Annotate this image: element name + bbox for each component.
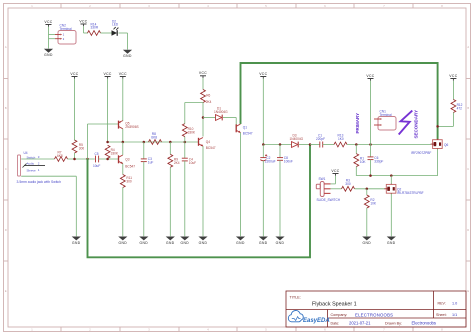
wire Q1 emitter to GND — [240, 133, 242, 237]
ground C8 — [275, 237, 284, 245]
svg-text:3: 3 — [148, 4, 150, 8]
svg-text:1/1: 1/1 — [452, 313, 457, 317]
resistor R12 472 — [438, 81, 463, 127]
power symbol VCC (R6) — [199, 71, 207, 78]
ground under D2 — [123, 50, 132, 58]
resistor R1 10K — [354, 145, 367, 176]
wire R11 to GND — [122, 188, 124, 237]
svg-text:B: B — [467, 106, 469, 110]
svg-text:Sheet:: Sheet: — [436, 313, 447, 317]
svg-text:6K8: 6K8 — [151, 135, 157, 139]
node C6 top — [369, 143, 372, 146]
switch SW1 SLIDE_SWITCH — [316, 177, 340, 202]
node R4 bottom junction — [106, 158, 109, 161]
node mid rail C4/R10 — [184, 141, 187, 144]
svg-text:U4: U4 — [24, 151, 28, 155]
svg-text:330K: 330K — [111, 151, 119, 155]
svg-text:8: 8 — [441, 4, 443, 8]
svg-text:D: D — [5, 228, 7, 232]
mosfet Q2 IRLR7843TRLPBF — [384, 183, 423, 195]
svg-text:3: 3 — [148, 327, 150, 331]
ground C2 — [259, 237, 268, 245]
wire thick primary return loop — [88, 145, 311, 258]
svg-text:330R: 330R — [91, 26, 99, 30]
node C2 — [262, 143, 265, 146]
resistor R2 10K — [364, 189, 377, 237]
ground R2 — [362, 237, 371, 245]
wire VCC to Q5 emitter — [122, 79, 124, 121]
svg-text:5: 5 — [265, 4, 267, 8]
svg-text:10uF: 10uF — [93, 164, 100, 168]
wire Q2 source to GND — [390, 194, 392, 237]
diode D3 1N4004G — [290, 134, 311, 148]
svg-text:7: 7 — [383, 327, 385, 331]
node R5/R7 junction — [73, 158, 76, 161]
svg-text:2N3906S: 2N3906S — [125, 125, 138, 129]
svg-text:3: 3 — [38, 155, 40, 159]
svg-text:6K8: 6K8 — [57, 154, 63, 158]
ground under CN2 — [44, 49, 53, 57]
wire D1 to Q1 base — [223, 118, 236, 129]
title block outline — [286, 291, 466, 327]
wire Q6 source down to rail — [437, 149, 439, 176]
ground R9 — [166, 237, 175, 245]
svg-text:E: E — [5, 289, 7, 293]
wire thick Q1 collector loop to Q6 drain — [241, 63, 438, 140]
svg-text:Sleeve: Sleeve — [27, 169, 37, 173]
wire VCC to SW1 — [331, 176, 336, 184]
power symbol VCC (R4 column) — [103, 72, 111, 79]
wire node to D1 — [203, 117, 216, 119]
wire jack switch pin to R7 — [21, 158, 54, 160]
wire R1/C6 bottom rail to Q6 source — [356, 175, 437, 177]
resistor R14 330R — [88, 22, 101, 35]
svg-text:220pF: 220pF — [316, 137, 325, 141]
ground C3 — [139, 237, 148, 245]
wire Q3 collector up — [122, 142, 124, 155]
resistor R5 300 — [72, 140, 84, 153]
svg-text:1: 1 — [38, 168, 40, 172]
resistor R7 6K8 — [55, 151, 68, 162]
power symbol VCC (C2 node) — [259, 72, 267, 79]
node Q2 drain — [390, 174, 393, 177]
svg-text:1: 1 — [31, 327, 33, 331]
wire VCC to R5 — [74, 79, 76, 141]
capacitor C5 10uF — [93, 152, 100, 168]
svg-text:1: 1 — [31, 4, 33, 8]
ground jack sleeve — [72, 237, 81, 245]
EasyEDA logo — [288, 310, 303, 321]
wire R13 to Q6 gate — [347, 144, 431, 146]
wire riser to Q5 base — [88, 124, 119, 159]
power symbol VCC (R14) — [79, 19, 87, 26]
ground C4 — [180, 237, 189, 245]
svg-text:2: 2 — [38, 161, 40, 165]
svg-text:1uF: 1uF — [148, 161, 154, 165]
svg-text:1K0: 1K0 — [338, 137, 344, 141]
resistor R3 300 — [342, 178, 355, 191]
svg-text:1N4004G: 1N4004G — [290, 137, 304, 141]
transistor Q3 BC547 — [119, 155, 136, 169]
svg-text:2021-07-21: 2021-07-21 — [349, 321, 371, 326]
svg-text:ELECTRONOOBS: ELECTRONOOBS — [355, 312, 393, 317]
capacitor C8 100nF — [277, 145, 293, 237]
svg-text:1N4004G: 1N4004G — [214, 110, 228, 114]
node C6 bottom — [369, 174, 372, 177]
svg-text:300: 300 — [345, 182, 351, 186]
svg-text:Q3: Q3 — [125, 158, 129, 162]
node R12 to drain loop — [436, 125, 439, 128]
power symbol VCC (CN1) — [366, 74, 374, 81]
wire Q2 drain up — [390, 176, 392, 184]
svg-text:5: 5 — [265, 327, 267, 331]
node mid rail Q5/Q3 collectors — [122, 141, 125, 144]
svg-text:LED: LED — [112, 23, 119, 27]
resistor R4 330K — [105, 145, 119, 158]
ground Q1 — [236, 237, 245, 245]
svg-text:8: 8 — [441, 327, 443, 331]
svg-text:4: 4 — [207, 4, 209, 8]
svg-text:BC547: BC547 — [125, 165, 135, 169]
svg-text:IRLR7843TRLPBF: IRLR7843TRLPBF — [397, 191, 424, 195]
svg-text:300: 300 — [79, 146, 85, 150]
transistor Q1 BC547 — [236, 124, 253, 136]
node R1 top — [355, 143, 358, 146]
node mid rail C3 — [143, 141, 146, 144]
wire SW1 to R3 — [331, 188, 342, 190]
transistor Q4 BC547 — [199, 138, 216, 150]
svg-text:330K: 330K — [188, 131, 196, 135]
resistor R13 1K0 — [334, 134, 347, 147]
mid rail wire — [108, 141, 199, 143]
svg-text:2: 2 — [89, 327, 91, 331]
svg-text:Q4: Q4 — [206, 140, 210, 144]
wire VCC to R14 — [84, 26, 89, 33]
svg-text:SECONDARY: SECONDARY — [414, 110, 419, 139]
svg-text:2200uF: 2200uF — [265, 160, 276, 164]
node thick loop top — [309, 143, 312, 146]
flyback lightning symbol — [399, 111, 413, 135]
svg-text:REV:: REV: — [438, 302, 446, 306]
capacitor C4 10uF — [182, 142, 196, 236]
svg-text:Q1: Q1 — [243, 126, 247, 130]
svg-text:10K: 10K — [370, 201, 377, 205]
svg-text:330pF: 330pF — [374, 160, 383, 164]
resistor R6 2K4 — [201, 78, 212, 137]
svg-text:100nF: 100nF — [284, 160, 293, 164]
svg-text:2: 2 — [89, 4, 91, 8]
svg-text:BC547: BC547 — [243, 132, 253, 136]
svg-text:B: B — [5, 106, 7, 110]
svg-text:300: 300 — [126, 180, 132, 184]
svg-text:Drawn By:: Drawn By: — [385, 321, 402, 325]
mosfet Q6 IRF2907ZPBF — [411, 139, 448, 155]
node mid rail R4 — [106, 141, 109, 144]
svg-text:4: 4 — [207, 327, 209, 331]
wire C5 to Q3 base — [99, 158, 119, 160]
svg-text:A: A — [467, 45, 469, 49]
capacitor C1 220pF — [310, 134, 334, 148]
svg-text:3.5mm audio jack with Switch: 3.5mm audio jack with Switch — [17, 180, 62, 184]
svg-text:E: E — [467, 289, 469, 293]
svg-text:7: 7 — [383, 4, 385, 8]
wire jack sleeve to GND — [21, 176, 76, 236]
LED D2 — [112, 19, 119, 36]
power symbol VCC (R12) — [449, 74, 457, 81]
wire Q3 emitter to R11 — [122, 164, 124, 175]
wire D2 to GND — [119, 33, 128, 50]
capacitor C3 1uF — [141, 142, 154, 236]
svg-text:10K: 10K — [360, 160, 367, 164]
wire Q4 emitter to GND — [202, 146, 204, 236]
svg-text:D: D — [467, 228, 469, 232]
wire R3 to Q2 gate — [355, 188, 385, 190]
svg-text:C5: C5 — [95, 152, 99, 156]
node R2 top — [366, 188, 369, 191]
svg-text:IRF2907ZPBF: IRF2907ZPBF — [411, 151, 431, 155]
svg-text:PRIMARY: PRIMARY — [355, 113, 360, 134]
ground Q2 — [387, 237, 396, 245]
svg-text:TITLE:: TITLE: — [290, 296, 301, 300]
svg-text:Electronoobs: Electronoobs — [412, 321, 436, 326]
transistor Q5 2N3906S — [118, 121, 138, 130]
svg-text:6: 6 — [324, 327, 326, 331]
svg-text:Q6: Q6 — [444, 143, 448, 147]
audio jack U4 — [17, 151, 62, 184]
wire R7 to C5 (signal node) — [68, 158, 95, 160]
svg-text:Terminal: Terminal — [380, 113, 392, 117]
resistor R8 6K8 — [149, 132, 162, 145]
connector CN1 — [374, 110, 396, 130]
node C8 — [279, 143, 282, 146]
node mid rail R9 — [169, 141, 172, 144]
wire R14 to D2 — [101, 32, 112, 34]
wire VCC down to mid rail — [107, 79, 109, 142]
resistor R9 2K4 — [168, 142, 180, 236]
ground Q4 — [198, 237, 207, 245]
wire D3 rail — [263, 144, 291, 146]
svg-text:EasyEDA: EasyEDA — [303, 318, 330, 324]
svg-text:2K4: 2K4 — [174, 161, 180, 165]
svg-text:A: A — [5, 45, 7, 49]
svg-text:Terminal: Terminal — [60, 27, 72, 31]
svg-text:Flyback Speaker 1: Flyback Speaker 1 — [312, 301, 357, 307]
power symbol VCC (Q5 emitter) — [119, 72, 127, 79]
diode D1 1N4004G — [214, 107, 228, 121]
svg-text:SW1: SW1 — [319, 177, 326, 181]
power symbol VCC (CN2 input) — [44, 20, 52, 27]
node D1 branch — [202, 116, 205, 119]
power symbol VCC (SW1) — [331, 169, 339, 176]
resistor R11 300 — [120, 175, 132, 188]
wire VCC down to D3 rail — [262, 79, 264, 145]
capacitor C2 2200uF polarized — [260, 145, 275, 237]
svg-text:Company:: Company: — [331, 313, 348, 317]
svg-text:2: 2 — [63, 37, 65, 41]
svg-text:2K4: 2K4 — [206, 100, 212, 104]
wire VCC to CN2 and GND — [49, 27, 56, 49]
power symbol VCC (R5) — [70, 72, 78, 79]
svg-text:Date:: Date: — [331, 321, 340, 325]
wire Q5 collector to mid rail — [122, 129, 124, 142]
capacitor C6 330pF — [368, 145, 384, 176]
svg-text:C: C — [5, 167, 7, 171]
connector CN2 — [55, 24, 76, 44]
svg-text:472: 472 — [457, 107, 463, 111]
svg-text:R6: R6 — [206, 93, 210, 97]
svg-text:6: 6 — [324, 4, 326, 8]
svg-text:SLIDE_SWITCH: SLIDE_SWITCH — [317, 198, 341, 202]
resistor R10 330K — [182, 103, 203, 143]
svg-text:BC547: BC547 — [206, 146, 216, 150]
svg-text:1: 1 — [63, 33, 65, 37]
node input riser junction — [86, 158, 89, 161]
svg-text:1.0: 1.0 — [452, 302, 457, 306]
svg-text:10uF: 10uF — [189, 161, 196, 165]
ground R11 — [118, 237, 127, 245]
wire VCC CN1 down — [370, 81, 372, 145]
wire R5 to signal node — [74, 153, 76, 159]
svg-text:C: C — [467, 167, 469, 171]
